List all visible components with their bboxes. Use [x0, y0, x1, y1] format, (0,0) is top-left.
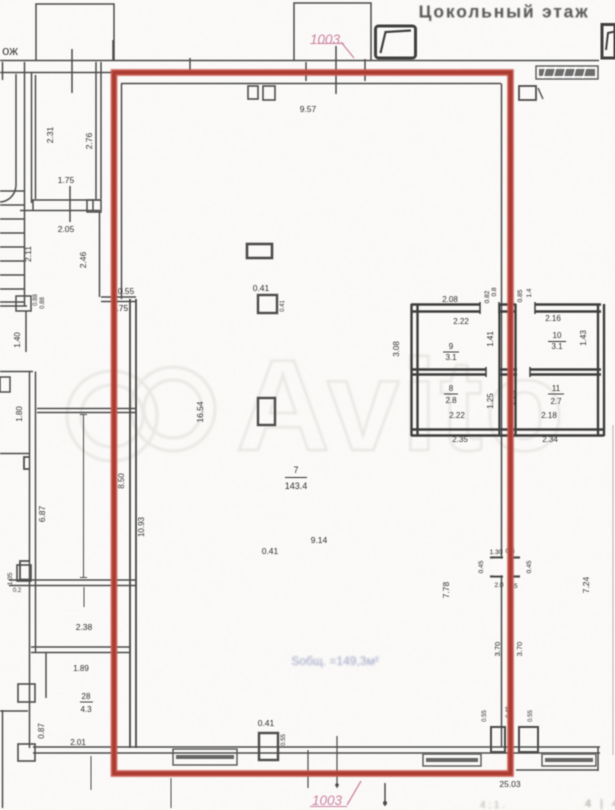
- svg-text:0.87: 0.87: [37, 723, 46, 739]
- svg-text:0.55: 0.55: [118, 286, 135, 296]
- wc grid bottom wall double: [411, 428, 604, 430]
- svg-text:1.25: 1.25: [486, 393, 495, 409]
- svg-text:11: 11: [552, 384, 561, 393]
- svg-text:10: 10: [553, 331, 562, 340]
- balcony box top-left: [36, 4, 114, 60]
- wc grid center divider double: [498, 304, 500, 436]
- wall: big room inner right vertical: [501, 84, 503, 748]
- right faint outer boundary: [612, 425, 614, 755]
- svg-text:10.93: 10.93: [137, 516, 146, 537]
- partition in lower room: [45, 653, 47, 698]
- svg-text:8: 8: [449, 384, 454, 393]
- balcony box top-center: [294, 3, 371, 60]
- fraction bar room 11: [548, 393, 564, 395]
- svg-text:1.75: 1.75: [58, 175, 75, 185]
- door/ramp symbol top (thick quad): [376, 26, 416, 58]
- dim stem for 9.57: [335, 46, 337, 94]
- stair rungs: [0, 190, 24, 192]
- window hatch bottom right: [542, 754, 596, 766]
- svg-text:2.22: 2.22: [449, 411, 465, 420]
- small box at stair bottom: [16, 296, 31, 311]
- dim tick x306: [305, 62, 307, 81]
- svg-text:0.45: 0.45: [478, 560, 485, 573]
- svg-text:4.3: 4.3: [80, 705, 92, 714]
- column box bottom center: [259, 733, 278, 760]
- svg-text:Цокольный этаж: Цокольный этаж: [419, 2, 590, 22]
- svg-text:143.4: 143.4: [285, 481, 308, 491]
- svg-text:Sобщ. =149,3м²: Sобщ. =149,3м²: [291, 654, 378, 668]
- dim tick x365: [364, 59, 366, 81]
- door niche lower: [20, 561, 30, 580]
- square column box: [258, 295, 277, 313]
- wall stub left at y453: [0, 453, 30, 455]
- svg-text:3.1: 3.1: [445, 353, 457, 362]
- svg-text:3.1: 3.1: [551, 342, 563, 351]
- svg-text:2.16: 2.16: [545, 314, 561, 323]
- faint bottom-right marks: [480, 798, 615, 810]
- svg-text:0.45: 0.45: [526, 560, 533, 573]
- dim tick below wall y586: [83, 587, 85, 607]
- dim tick through wall x72: [71, 49, 73, 93]
- svg-text:2.22: 2.22: [453, 317, 469, 326]
- dim tick x113: [112, 40, 114, 60]
- svg-text:0.88: 0.88: [33, 294, 39, 306]
- wc grid left wall double: [410, 304, 412, 436]
- wall: outer top upper line: [0, 60, 599, 62]
- svg-text:9.14: 9.14: [311, 535, 328, 545]
- svg-text:7.78: 7.78: [441, 581, 451, 598]
- svg-text:1.05: 1.05: [7, 572, 14, 585]
- svg-text:2.01: 2.01: [70, 738, 86, 747]
- column boxes at bottom near red: [491, 727, 505, 752]
- door opening on right wall: [494, 559, 512, 575]
- door jamb ticks middle wall: [485, 367, 487, 377]
- door box bottom: [18, 744, 35, 761]
- dim tick below bottom wall x171: [170, 778, 172, 808]
- svg-text:2.08: 2.08: [442, 295, 458, 304]
- left lower block wall double: [29, 372, 31, 749]
- bottom wall lower line right of red: [516, 769, 598, 771]
- watermark ring 2: [131, 367, 215, 451]
- svg-text:0.2: 0.2: [13, 588, 22, 594]
- stair arc: [0, 186, 16, 202]
- svg-text:2.11: 2.11: [23, 246, 33, 262]
- svg-text:9.57: 9.57: [300, 104, 317, 114]
- door/ramp symbol top right edge: [602, 25, 615, 59]
- door box mid: [18, 684, 35, 702]
- dim tick x308 bottom: [307, 750, 309, 788]
- svg-text:1.4: 1.4: [526, 288, 533, 297]
- room A bottom wall double: [31, 199, 101, 201]
- svg-text:1.89: 1.89: [73, 664, 89, 673]
- svg-text:0.85: 0.85: [517, 289, 524, 302]
- small box left edge below corner: [0, 377, 10, 392]
- svg-text:9: 9: [449, 342, 454, 351]
- room A right wall double: [95, 62, 97, 199]
- wall y580 double: [9, 579, 136, 581]
- svg-text:2.76: 2.76: [84, 132, 94, 149]
- svg-text:28: 28: [82, 692, 91, 701]
- svg-text:8.50: 8.50: [117, 473, 126, 489]
- corner cap of left lower block: [0, 371, 33, 373]
- door jamb ticks top wall: [479, 302, 481, 314]
- fraction bar room 10: [548, 341, 566, 343]
- svg-text:2.34: 2.34: [542, 435, 558, 444]
- wall: big room inner top line: [121, 83, 501, 85]
- svg-text:3.08: 3.08: [392, 341, 401, 357]
- svg-text:1.43: 1.43: [579, 330, 588, 346]
- arrow mark bottom: [384, 783, 386, 806]
- bottom-left outer wall: [2, 710, 4, 808]
- svg-text:1.40: 1.40: [13, 332, 22, 348]
- dim tick x190: [189, 58, 191, 72]
- svg-text:6.87: 6.87: [37, 505, 47, 522]
- tall column box: [258, 398, 275, 425]
- svg-text:0.88: 0.88: [40, 297, 46, 309]
- svg-text:0.41: 0.41: [258, 718, 275, 728]
- column box pair below top wall: [248, 86, 258, 99]
- svg-text:2.46: 2.46: [78, 251, 88, 268]
- wc grid top wall double with door gaps: [411, 303, 601, 305]
- svg-text:1.41: 1.41: [486, 331, 495, 347]
- bottom right wall end vertical: [597, 747, 599, 771]
- bar column mid-left: [247, 244, 272, 258]
- svg-text:4 ; 1 .: 4 ; 1 .: [480, 800, 505, 810]
- left outer wall continuation: [99, 212, 101, 297]
- red highlight outline of room 7: [114, 73, 511, 774]
- ramp hatch bottom left-center: [173, 749, 237, 765]
- window bar top right: [536, 66, 598, 79]
- dim tick below bottom wall x91: [90, 756, 92, 790]
- wc grid middle wall double with gaps: [411, 368, 601, 370]
- wall: outer top lower line (left of red): [0, 72, 113, 74]
- svg-text:7.24: 7.24: [581, 576, 591, 593]
- bottom wall double: [33, 746, 600, 748]
- svg-text:16.54: 16.54: [195, 401, 205, 423]
- svg-text:3.70: 3.70: [493, 642, 502, 657]
- svg-text:0.55: 0.55: [528, 710, 534, 722]
- svg-text:ож: ож: [2, 43, 18, 58]
- svg-text:2.35: 2.35: [452, 435, 468, 444]
- wall below stairs: [25, 311, 27, 352]
- fraction bar room 9: [443, 351, 459, 353]
- svg-text:3.70: 3.70: [515, 642, 524, 657]
- svg-text:2.38: 2.38: [76, 622, 93, 632]
- small box above wall y580: [17, 565, 31, 581]
- dim stem x337 to label 1003: [336, 736, 338, 788]
- svg-text:2.05: 2.05: [58, 224, 75, 234]
- room 2.38 bottom wall double: [31, 646, 130, 648]
- small box at top-right red corner: [519, 86, 536, 100]
- svg-text:4 | 4: 4 | 4: [585, 798, 615, 810]
- stair bottom line: [0, 305, 27, 307]
- svg-text:0.55: 0.55: [482, 710, 488, 722]
- svg-text:2.31: 2.31: [45, 126, 55, 143]
- big room left wall double lower: [129, 299, 131, 748]
- fraction bar room 8: [444, 393, 458, 395]
- jog to inner wall: [101, 296, 136, 298]
- svg-text:25.03: 25.03: [499, 779, 521, 789]
- svg-text:2.7: 2.7: [550, 397, 562, 406]
- wall: left edge stub below top wall: [2, 62, 4, 80]
- wc grid right wall double: [597, 304, 599, 436]
- svg-text:2.8: 2.8: [445, 396, 457, 405]
- svg-text:0.82: 0.82: [484, 290, 491, 303]
- svg-text:1003: 1003: [312, 793, 343, 808]
- svg-text:1.80: 1.80: [15, 406, 24, 422]
- svg-text:0.41: 0.41: [253, 283, 270, 293]
- room A left wall: [31, 73, 33, 203]
- door niche upper: [24, 457, 30, 469]
- stair outer rail: [15, 74, 17, 186]
- fraction bar room 7: [285, 477, 307, 479]
- watermark ring 1: [67, 371, 157, 461]
- window hatch bottom left of red: [423, 754, 481, 766]
- fraction bar room 28: [80, 701, 93, 703]
- svg-text:2.18: 2.18: [541, 411, 557, 420]
- svg-text:0.41: 0.41: [262, 546, 279, 556]
- svg-text:0.55: 0.55: [281, 734, 287, 746]
- dim line 6.87: [83, 414, 85, 578]
- wall notch on left outer wall: [87, 200, 101, 212]
- svg-text:0.8: 0.8: [491, 287, 498, 296]
- stair inner rail: [24, 62, 26, 306]
- svg-text:2.0: 2.0: [494, 582, 503, 589]
- svg-text:0.41: 0.41: [280, 300, 286, 312]
- svg-text:1.30: 1.30: [490, 549, 503, 556]
- corridor divider wall: [37, 408, 136, 410]
- svg-text:7: 7: [293, 465, 298, 475]
- wall: big room inner left (upper thin): [121, 84, 123, 300]
- svg-text:1003: 1003: [310, 32, 341, 47]
